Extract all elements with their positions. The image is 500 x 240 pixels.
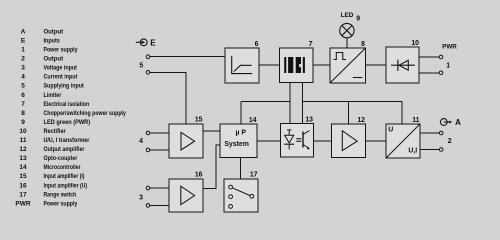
wire terminal 5b to block 15 top [150, 72, 186, 124]
wire block 8 to block 10 [366, 64, 387, 66]
svg-text:5: 5 [139, 63, 143, 70]
terminal 1 [439, 71, 443, 75]
block 13 opto-coupler box [281, 124, 314, 158]
wire supply bus left segment [241, 100, 290, 102]
svg-text:17: 17 [19, 191, 27, 198]
svg-text:14: 14 [19, 164, 27, 171]
terminals (open circles) [146, 55, 443, 207]
wire block 10 to terminal 1 [419, 72, 439, 74]
wire block 10 to terminal PWR [419, 56, 439, 58]
terminal 5a [146, 55, 150, 59]
block 17 range switch box [224, 179, 258, 212]
svg-text:LED green (PWR): LED green (PWR) [44, 119, 91, 126]
svg-text:E: E [150, 38, 156, 47]
wire terminal 3b to block 16 [150, 204, 169, 206]
svg-text:U: U [388, 127, 393, 134]
svg-text:4: 4 [21, 74, 25, 81]
svg-text:Output: Output [44, 28, 64, 35]
svg-text:2: 2 [448, 138, 452, 145]
svg-text:9: 9 [356, 15, 360, 22]
legend [15, 28, 126, 207]
wire block 7 pin b to block 13 [302, 83, 304, 124]
svg-text:Rectifier: Rectifier [44, 128, 67, 135]
svg-text:Input amplifier (U): Input amplifier (U) [44, 182, 88, 189]
svg-text:Current input: Current input [44, 74, 78, 81]
svg-text:16: 16 [19, 182, 27, 189]
output symbol A [440, 119, 450, 126]
block 11 U-U,I transformer box [386, 124, 420, 158]
svg-text:Output amplifier: Output amplifier [44, 146, 85, 153]
terminal 3b [146, 204, 150, 208]
svg-text:8: 8 [361, 41, 365, 48]
svg-text:3: 3 [139, 194, 143, 201]
svg-text:A: A [455, 118, 461, 127]
svg-text:6: 6 [21, 92, 25, 99]
wire block 6 to block 7 [259, 64, 280, 66]
terminal PWR [439, 55, 443, 59]
svg-text:12: 12 [357, 117, 365, 124]
svg-text:Output: Output [44, 56, 64, 63]
svg-text:µ P: µ P [236, 129, 247, 136]
svg-text:9: 9 [21, 119, 25, 126]
wire block 7 pin a to block 13 [289, 83, 291, 124]
svg-text:PWR: PWR [15, 200, 30, 207]
svg-text:Chopper/switching power supply: Chopper/switching power supply [44, 110, 127, 117]
svg-text:U,I: U,I [408, 147, 417, 154]
svg-text:8: 8 [21, 110, 25, 117]
svg-text:2: 2 [21, 56, 25, 63]
svg-text:LED: LED [341, 12, 354, 19]
svg-text:11: 11 [412, 117, 419, 124]
wire terminal 5a to block 6 [150, 56, 225, 58]
block 6 limiter box [225, 48, 259, 83]
LED 9 lamp symbol [340, 23, 354, 37]
svg-text:Power supply: Power supply [44, 47, 78, 54]
block 7 transformer core bars [284, 57, 305, 73]
svg-text:Range switch: Range switch [44, 191, 77, 198]
svg-text:Input amplifier (I): Input amplifier (I) [44, 173, 85, 180]
block 12 amplifier triangle [342, 131, 357, 151]
svg-text:7: 7 [21, 101, 25, 108]
svg-text:16: 16 [195, 172, 203, 179]
svg-text:U/U, I transformer: U/U, I transformer [44, 137, 90, 144]
block 8 chopper box [330, 48, 366, 83]
svg-text:11: 11 [20, 137, 27, 144]
wire block 14 to block 13 [257, 140, 281, 142]
wire block 11 to terminal 2a [420, 132, 439, 134]
svg-text:3: 3 [21, 65, 25, 72]
svg-text:7: 7 [309, 41, 313, 48]
wire LED 9 to block 8 [346, 38, 348, 48]
svg-text:15: 15 [195, 117, 203, 124]
svg-text:5: 5 [21, 83, 25, 90]
wire block 7 to block 8 [313, 64, 330, 66]
block 17 range switch symbol [229, 185, 254, 208]
wire bus to block 11 [401, 101, 403, 124]
svg-text:13: 13 [19, 155, 27, 162]
block 13 opto-coupler symbols [284, 130, 309, 150]
terminal 4b [146, 148, 150, 152]
svg-text:4: 4 [139, 138, 143, 145]
block 15 amplifier triangle [181, 132, 195, 150]
wire bus to block 12 [348, 101, 350, 124]
svg-text:10: 10 [19, 128, 27, 135]
wire block 16 to block 14 [203, 145, 220, 189]
block 7 electrical isolation box [280, 48, 314, 83]
svg-text:1: 1 [21, 47, 25, 54]
wire block 15 to block 14 [203, 130, 220, 132]
wire block 13 to block 12 [314, 140, 332, 142]
svg-text:A: A [21, 28, 26, 35]
svg-text:Voltage input: Voltage input [44, 65, 78, 72]
svg-text:E: E [21, 38, 26, 45]
svg-text:15: 15 [19, 173, 27, 180]
wire block 11 to terminal 2b [420, 149, 439, 151]
svg-text:Opto-coupler: Opto-coupler [44, 155, 78, 162]
svg-text:PWR: PWR [442, 44, 457, 51]
wire block 14 to block 17 [240, 158, 242, 180]
block 15 input amplifier I box [169, 124, 203, 158]
svg-text:14: 14 [249, 117, 257, 124]
svg-text:Microcontroller: Microcontroller [44, 164, 81, 171]
terminal 4a [146, 131, 150, 135]
svg-text:1: 1 [446, 62, 450, 69]
block 11 U/U,I converter symbol [386, 124, 419, 157]
svg-text:6: 6 [255, 41, 259, 48]
svg-text:Electrical isolation: Electrical isolation [44, 101, 90, 108]
wire terminal 4a to block 15 [150, 132, 169, 134]
wire bus to block 14 [240, 101, 242, 124]
block 16 amplifier triangle [181, 186, 195, 205]
block 14 microcontroller box [220, 124, 257, 158]
svg-text:13: 13 [305, 117, 313, 124]
wire supply bus right segment [303, 100, 402, 102]
block 12 output amplifier box [332, 124, 366, 158]
terminal 3a [146, 186, 150, 190]
svg-text:Supplying input: Supplying input [44, 83, 85, 90]
block 6 limiter symbol [231, 56, 252, 74]
svg-text:Power supply: Power supply [44, 200, 78, 207]
block 10 rectifier box [386, 47, 419, 83]
svg-text:Limiter: Limiter [44, 92, 62, 99]
terminal 2a [439, 131, 443, 135]
block 16 input amplifier U box [169, 179, 203, 212]
input symbol E [136, 39, 147, 46]
wire terminal 4b to block 15 [150, 149, 169, 151]
svg-text:17: 17 [250, 172, 258, 179]
wire terminal 3a to block 16 [150, 187, 169, 189]
block 10 rectifier diode [391, 60, 415, 71]
svg-text:10: 10 [411, 40, 419, 47]
wire block 12 to block 11 [366, 140, 387, 142]
svg-text:Inputs: Inputs [44, 38, 61, 45]
block 8 chopper symbol [330, 48, 365, 83]
svg-text:12: 12 [19, 146, 27, 153]
terminal 5b [146, 71, 150, 75]
svg-text:System: System [224, 141, 249, 148]
terminal 2b [439, 148, 443, 152]
